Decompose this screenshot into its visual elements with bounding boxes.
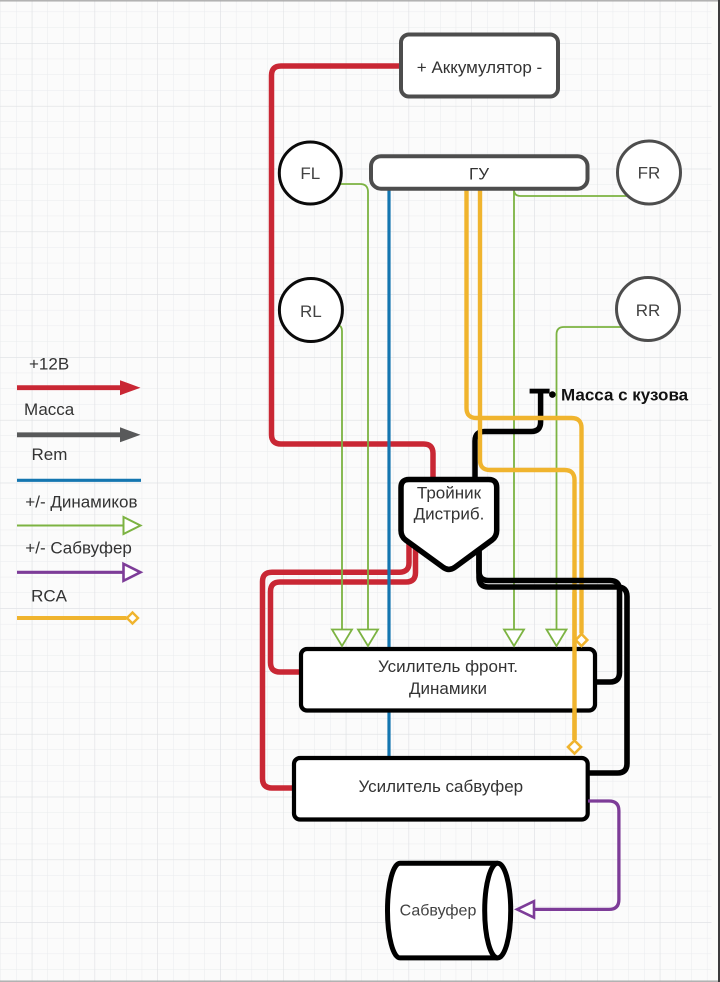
wire +12V distributor to subwoofer amp (red) [263,540,410,788]
wire power distributor to subwoofer amp (black) [479,548,627,773]
svg-text:Масса с кузова: Масса с кузова [561,386,689,405]
speaker-wire arrowhead 4 into front amp [547,630,567,647]
RCA connector diamond at front amp [576,634,588,646]
wire speaker FL to front amp (green) [340,184,369,630]
svg-text:+/- Сабвуфер: +/- Сабвуфер [25,539,132,558]
page edge top [0,0,720,2]
speaker FR [618,141,681,204]
speaker RL [279,279,342,342]
page margin strip right [712,0,719,982]
svg-text:Дистриб.: Дистриб. [414,505,485,524]
legend line RCA (yellow) with diamond [17,613,138,624]
svg-text:RR: RR [636,301,661,320]
svg-text:FR: FR [638,164,661,183]
wire RCA head unit to front amp (yellow) [467,189,582,634]
svg-text:Масса: Масса [24,400,75,419]
svg-text:+12В: +12В [29,355,69,374]
speaker-wire arrowhead 1 into front amp [332,630,352,647]
wire head unit to speaker FR (green) [514,186,629,196]
front amplifier box [301,649,595,711]
svg-text:Сабвуфер: Сабвуфер [400,903,477,920]
chassis ground symbol [530,386,689,405]
svg-text:FL: FL [300,164,320,183]
svg-text:RL: RL [300,302,322,321]
wire +12V distributor to front amp (red) [271,545,416,672]
svg-text:+/- Динамиков: +/- Динамиков [25,492,137,511]
wire RCA to subwoofer amp overlay segment (yellow over front amp) [572,592,576,740]
page edge right [718,0,720,982]
svg-text:+ Аккумулятор -: + Аккумулятор - [417,58,542,77]
wire +12V battery to distributor (red) [272,66,434,478]
page edge bottom [0,980,720,982]
RCA connector diamond at subwoofer amp [568,741,581,754]
wire subwoofer amp to subwoofer (purple) [535,801,619,909]
svg-text:RCA: RCA [31,586,68,605]
wire Rem head unit to subwoofer amp (blue) [387,189,390,757]
speaker FL [279,142,341,204]
legend arrow +12V (red) [17,380,141,395]
wire head unit to front amp (green) [513,189,515,630]
svg-text:Rem: Rem [32,445,68,464]
wire power distributor to front amp (black) [479,548,620,682]
battery box [401,35,558,97]
legend arrow +/- Сабвуфер (purple) [17,564,141,581]
wire speaker RL to front amp (green) [338,325,343,630]
svg-text:Динамики: Динамики [409,679,487,698]
svg-text:Тройник: Тройник [417,483,482,502]
wire RCA head unit to subwoofer amp (yellow) [480,189,575,740]
svg-text:Усилитель сабвуфер: Усилитель сабвуфер [358,777,523,796]
speaker-wire arrowhead 2 into front amp [358,630,378,647]
subwoofer amplifier box [294,758,588,820]
head unit box ГУ [371,156,588,189]
speaker-wire arrowhead 3 into front amp [504,630,524,647]
wire ground chassis to distributor (black) [475,391,541,478]
legend line Rem (blue) [17,479,141,482]
legend arrow +/- Динамиков (green) [17,517,141,534]
svg-text:ГУ: ГУ [469,165,489,184]
svg-text:Усилитель фронт.: Усилитель фронт. [378,657,518,676]
legend arrow Масса (gray) [17,427,141,442]
speaker RR [617,278,680,341]
purple arrowhead into subwoofer [517,901,534,917]
wire speaker RR to front amp (green) [557,327,623,630]
distributor block Тройник [401,480,497,570]
subwoofer cylinder [387,863,510,958]
